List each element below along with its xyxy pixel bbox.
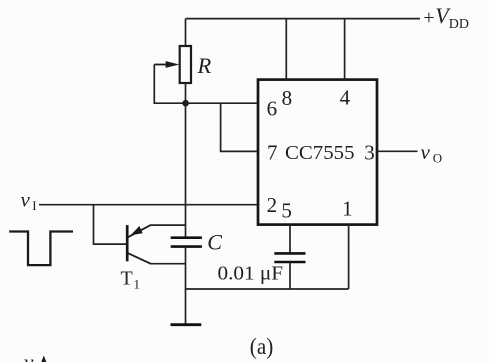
IC U1 CC7555 box: [258, 80, 377, 225]
wire: capacitor C bottom plate down to ground: [185, 247, 187, 325]
wire: pin 1 down to bottom rail: [348, 225, 350, 290]
wire: bottom rail (ground row to pin1): [186, 288, 349, 290]
wire: pin 5 down to 0.01uF cap: [289, 225, 291, 254]
wire: resistor bottom to junction: [185, 83, 187, 103]
wire: vI drop down to transistor base: [94, 205, 127, 244]
node: junction dot: [182, 100, 189, 107]
svg-text:4: 4: [340, 86, 351, 110]
svg-text:O: O: [433, 151, 442, 166]
ground symbol: [171, 323, 202, 326]
wire: +VDD top supply rail: [186, 18, 421, 20]
svg-text:I: I: [32, 198, 36, 213]
wire: pin 4 to rail: [344, 19, 346, 80]
svg-text:v: v: [21, 187, 31, 211]
svg-text:1: 1: [342, 196, 353, 220]
partial next-figure axis label v (cropped at bottom edge): [24, 350, 46, 362]
svg-text:v: v: [24, 350, 34, 362]
capacitor 0.01uF plates: [274, 253, 305, 262]
label vI: [21, 187, 37, 213]
wire: pin 7 link (down from pin6 wire, right to pin 7): [221, 103, 258, 151]
wire: 0.01uF bottom plate to bottom rail: [289, 262, 291, 289]
wire: junction to pin 6: [186, 102, 259, 104]
svg-text:v: v: [421, 140, 431, 164]
wire: main vertical from junction down to capacitor C top plate: [185, 103, 187, 238]
power label +VDD: [423, 3, 469, 32]
wire: rail down to resistor top: [185, 19, 187, 47]
label T1: [121, 268, 141, 292]
svg-text:T: T: [121, 268, 133, 290]
svg-text:R: R: [197, 53, 212, 78]
svg-text:8: 8: [282, 86, 293, 110]
svg-text:+: +: [423, 7, 434, 29]
svg-text:1: 1: [134, 277, 141, 292]
input pulse waveform: [9, 232, 73, 266]
svg-text:5: 5: [281, 199, 292, 223]
wire: emitter horizontal to main vertical: [150, 224, 186, 226]
potentiometer wiper arrow into R: [154, 61, 179, 68]
wire: pin 8 to rail: [285, 19, 287, 80]
wire: wiper lead down and right to junction: [154, 65, 185, 104]
svg-text:7: 7: [267, 140, 278, 164]
svg-text:C: C: [207, 229, 222, 254]
svg-text:CC7555: CC7555: [285, 142, 355, 164]
svg-text:0.01 μF: 0.01 μF: [218, 263, 284, 285]
svg-text:6: 6: [267, 97, 278, 121]
label vO: [421, 140, 443, 166]
svg-text:DD: DD: [449, 17, 469, 32]
transistor T1 (PNP, base bar + emitter/collector): [127, 225, 150, 264]
wire: pin 2 row from vI to box: [39, 204, 258, 206]
capacitor C plates: [171, 238, 202, 247]
svg-text:3: 3: [364, 140, 375, 164]
svg-text:(a): (a): [250, 334, 273, 360]
svg-text:2: 2: [267, 193, 278, 217]
resistor R: [180, 46, 191, 83]
wire: pin 3 output: [377, 150, 418, 152]
wire: collector horizontal to main vertical: [150, 263, 186, 265]
